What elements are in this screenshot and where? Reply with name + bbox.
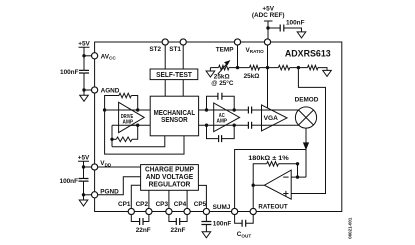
resistor 180k feedback	[253, 164, 267, 185]
drive amp feedback resistor bottom	[112, 125, 138, 147]
wire demod output down to op-amp minus	[305, 128, 307, 177]
ground (below PGND)	[79, 195, 88, 206]
pin TEMP	[234, 39, 240, 45]
ground (CP5 cap)	[202, 225, 211, 238]
wire sensor to AC amp lower	[199, 124, 249, 126]
node ADC REF	[266, 26, 269, 29]
CP4 wire	[186, 190, 188, 208]
node demod ref	[297, 66, 300, 69]
svg-text:AMP: AMP	[123, 120, 134, 126]
node AC amp upper output tap	[233, 108, 236, 111]
pin ST1	[180, 39, 186, 45]
series capacitor upper (HPF)	[248, 107, 251, 114]
node PGND supply	[82, 193, 85, 196]
CP2 wire	[148, 190, 150, 208]
demod output arrowhead	[304, 143, 309, 149]
demod mixer circle	[295, 107, 316, 128]
variable resistor arrow	[218, 64, 227, 74]
svg-text:CP3: CP3	[156, 201, 169, 208]
wire to 100nF ADC ref cap	[268, 27, 280, 29]
svg-text:ADXRS613: ADXRS613	[285, 48, 331, 58]
node AVcc supply	[82, 54, 85, 57]
wire resistor to right ground	[318, 68, 327, 71]
svg-text:100nF: 100nF	[213, 220, 232, 227]
wire var resistor to TEMP node	[229, 67, 250, 69]
svg-text:22nF: 22nF	[171, 227, 186, 234]
svg-text:SENSOR: SENSOR	[161, 117, 188, 124]
wire self-test to sensor (ST1)	[182, 80, 184, 97]
pin VDD	[92, 164, 98, 170]
resistor (VRATIO to demod ref)	[278, 65, 289, 70]
svg-text:DEMOD: DEMOD	[295, 96, 319, 103]
node AC amp lower input	[205, 124, 208, 127]
node VDD supply	[82, 165, 85, 168]
wire AGND stub	[84, 89, 95, 91]
svg-text:+5V: +5V	[78, 155, 90, 162]
wire 180k to minus input	[297, 164, 299, 177]
AC amp lower feedback capacitor	[207, 125, 235, 138]
PGND in	[98, 177, 141, 195]
wire self-test to sensor (ST2)	[164, 80, 166, 97]
svg-text:CHARGE PUMP: CHARGE PUMP	[145, 166, 194, 173]
resistor 25k at 25C (variable)	[219, 65, 229, 70]
self-test box	[150, 69, 198, 80]
node AGND supply	[82, 88, 85, 91]
capacitor 100nF (AVcc bypass)	[79, 70, 89, 73]
op-amp VGA	[262, 105, 288, 131]
CP3 wire	[168, 190, 170, 208]
wire VRATIO down to VGA	[267, 45, 269, 108]
pin PGND	[92, 192, 98, 198]
wire cap to ground	[284, 28, 302, 32]
wire ground to variable resistor	[210, 67, 218, 69]
ground (resistor row right)	[323, 70, 332, 76]
node AC amp upper input	[205, 108, 208, 111]
mechanical sensor box	[150, 96, 198, 136]
svg-text:ST2: ST2	[149, 46, 161, 53]
wire drive loop to sensor bottom 1	[112, 136, 165, 147]
IC block boundary ADXRS613	[95, 42, 342, 212]
node VRATIO divider	[266, 66, 269, 69]
op-amp AC amp	[214, 103, 240, 132]
capacitor 22nF (CP1-CP2)	[131, 214, 149, 222]
svg-text:SUMJ: SUMJ	[213, 204, 231, 211]
wire caps to VGA lower	[252, 124, 262, 126]
svg-text:PGND: PGND	[100, 188, 119, 195]
node drive lower resistor	[110, 138, 113, 141]
pin circles	[92, 39, 271, 215]
capacitor Cout (SUMJ-RATEOUT)	[235, 214, 254, 223]
svg-text:VGA: VGA	[264, 115, 279, 122]
svg-text:180kΩ ± 1%: 180kΩ ± 1%	[248, 155, 289, 162]
svg-text:REGULATOR: REGULATOR	[149, 181, 191, 188]
node drive amp input	[103, 108, 106, 111]
wire to VRATIO node	[260, 67, 279, 69]
ground (ADC REF)	[297, 32, 306, 38]
charge pump and voltage regulator box	[141, 165, 199, 191]
svg-text:CP2: CP2	[136, 201, 149, 208]
pin AGND	[92, 87, 98, 93]
wire output to RATEOUT	[253, 185, 264, 208]
wire ST2 to self-test	[164, 45, 166, 69]
capacitor 100nF (CP5)	[205, 214, 207, 221]
svg-text:CP1: CP1	[118, 201, 131, 208]
+5V (ADC REF) supply top-right	[264, 21, 273, 39]
drive amp feedback resistor top	[105, 96, 119, 111]
capacitor 22nF (CP3-CP4)	[169, 214, 187, 222]
svg-text:CP5: CP5	[194, 201, 207, 208]
wire AVcc stub	[84, 55, 95, 57]
svg-text:06021-001: 06021-001	[348, 217, 353, 239]
node drive amp output tap	[136, 108, 139, 111]
wire sensor to AC amp upper	[199, 109, 249, 111]
pin ST2	[162, 39, 168, 45]
wire ST1 to self-test	[182, 45, 184, 69]
svg-text:(ADC REF): (ADC REF)	[252, 12, 285, 19]
svg-text:SELF-TEST: SELF-TEST	[156, 72, 193, 79]
pin CP3	[166, 208, 172, 214]
wire PGND stub	[84, 194, 95, 196]
pin CP2	[146, 208, 152, 214]
svg-text:AGND: AGND	[101, 87, 120, 94]
svg-text:100nF: 100nF	[286, 19, 305, 26]
node drive amp lower tap	[136, 124, 139, 127]
pin RATEOUT	[250, 208, 256, 214]
svg-text:RATEOUT: RATEOUT	[258, 203, 287, 210]
wire ref node down-right to op-amp + input	[291, 68, 325, 194]
node TEMP divider	[236, 66, 239, 69]
capacitor 100nF (ADC REF)	[280, 25, 284, 32]
wire sensor upper-left signal	[105, 109, 151, 111]
node AC amp lower output tap	[233, 124, 236, 127]
svg-text:100nF: 100nF	[60, 69, 79, 76]
wire VDD stub	[84, 166, 95, 168]
wire drive loop to sensor bottom 2	[105, 110, 184, 154]
CP1 wire	[131, 185, 140, 208]
svg-text:AND VOLTAGE: AND VOLTAGE	[146, 174, 194, 181]
pin CP4	[184, 208, 190, 214]
pin SUMJ	[232, 208, 238, 214]
charge pump box wires: VDD in	[98, 166, 141, 168]
resistor (to right ground)	[308, 65, 318, 70]
resistor 25k (between TEMP and VRATIO)	[250, 65, 260, 70]
svg-text:@ 25°C: @ 25°C	[211, 79, 234, 87]
ground (below AGND)	[80, 90, 89, 101]
svg-text:100nF: 100nF	[60, 178, 79, 185]
series capacitor lower (HPF)	[248, 122, 251, 129]
+5V supply rail bottom-left	[78, 161, 89, 195]
wire sensor lower-left signal	[112, 124, 150, 126]
svg-text:22nF: 22nF	[136, 227, 151, 234]
ground (temp divider left)	[206, 68, 215, 77]
node op-amp output	[252, 184, 255, 187]
svg-text:AMP: AMP	[217, 118, 228, 124]
svg-text:CP4: CP4	[174, 201, 187, 208]
svg-text:TEMP: TEMP	[216, 47, 234, 54]
minus sign	[283, 176, 288, 178]
pin CP1	[128, 208, 134, 214]
+5V supply rail top-left	[79, 47, 90, 90]
CP5 wire	[198, 185, 206, 208]
wire VGA to demod upper	[262, 109, 299, 111]
pin VRATIO	[264, 39, 270, 45]
AC amp upper feedback capacitor	[207, 96, 235, 110]
op-amp drive amp	[119, 102, 145, 132]
pin AVcc	[92, 53, 98, 59]
node 180k to minus	[296, 162, 299, 165]
wire VGA to demod lower	[262, 124, 299, 126]
node minus input	[296, 175, 299, 178]
plus sign	[283, 191, 288, 196]
wire SUMJ to demod line	[235, 150, 306, 209]
pin CP5	[203, 208, 209, 214]
svg-text:ST1: ST1	[169, 46, 181, 53]
wire to right resistor	[290, 67, 308, 69]
wire TEMP down	[237, 45, 239, 68]
op-amp output amplifier	[264, 170, 291, 199]
capacitor 100nF (VDD bypass)	[79, 179, 89, 182]
svg-text:+5V: +5V	[78, 41, 90, 48]
svg-text:25kΩ: 25kΩ	[244, 73, 260, 80]
wire minus input	[291, 176, 306, 178]
wire caps to VGA upper	[252, 109, 262, 111]
